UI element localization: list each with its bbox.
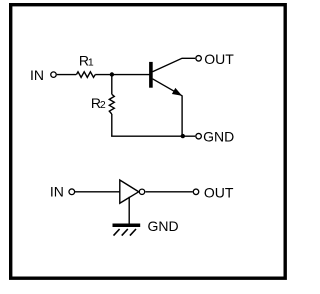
terminal IN (top) xyxy=(51,72,57,78)
terminal GND (top) xyxy=(196,133,202,139)
wire IN to R1 xyxy=(57,74,76,76)
terminal IN (bottom) xyxy=(69,189,75,195)
transistor Q1 base bar xyxy=(149,62,153,88)
node junction dot xyxy=(110,72,114,76)
terminal OUT (top) xyxy=(196,56,202,62)
resistor R2 xyxy=(109,94,114,114)
ground symbol bar xyxy=(113,223,141,227)
buffer U1 triangle xyxy=(120,180,139,203)
wire buffer to OUT xyxy=(145,191,192,193)
svg-text:IN: IN xyxy=(30,67,44,83)
terminal OUT (bottom) xyxy=(193,189,199,195)
wire R2 to ground rail xyxy=(111,114,113,136)
wire emitter to ground rail xyxy=(181,95,183,136)
node junction dot on rail xyxy=(181,134,185,138)
ground hatch 2 xyxy=(122,229,128,236)
transistor Q1 collector xyxy=(153,58,196,72)
transistor Q1 emitter with arrow xyxy=(153,79,183,96)
wire R1 to base xyxy=(95,74,150,76)
svg-text:IN: IN xyxy=(50,183,64,199)
svg-text:OUT: OUT xyxy=(204,51,234,67)
svg-text:GND: GND xyxy=(203,128,234,144)
ground rail wire xyxy=(111,135,195,137)
wire junction to R2 xyxy=(111,75,113,95)
buffer U1 output bubble xyxy=(139,189,144,194)
svg-text:OUT: OUT xyxy=(204,184,234,200)
wire buffer to ground xyxy=(128,197,130,224)
wire IN to buffer xyxy=(75,191,120,193)
ground hatch 3 xyxy=(130,229,136,236)
svg-text:GND: GND xyxy=(148,218,179,234)
resistor R1 xyxy=(76,72,95,78)
ground hatch 1 xyxy=(114,229,120,236)
